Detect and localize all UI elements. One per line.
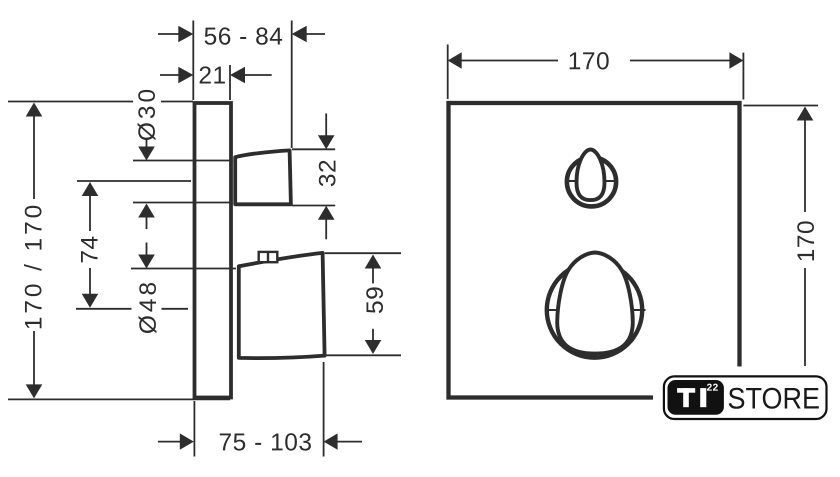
svg-text:74: 74	[76, 235, 103, 263]
dim line 32 upper	[325, 113, 327, 136]
logo TI letter I	[700, 388, 706, 407]
extension line front-plate left	[447, 45, 449, 100]
arrowhead 21 right	[230, 67, 245, 83]
arrowhead 32 up	[318, 206, 335, 220]
extension line 59 top	[325, 252, 401, 254]
extension line dia30 top	[133, 160, 233, 162]
dim line 170 top left	[461, 60, 558, 62]
dim line 170 top right	[630, 60, 730, 62]
arrowhead dia48 up	[138, 204, 155, 218]
dim line 59 lower	[372, 329, 374, 341]
extension line plate top-left	[8, 101, 133, 103]
extension line wall face top	[192, 21, 194, 101]
svg-text:Ø48: Ø48	[135, 279, 162, 334]
svg-text:59: 59	[362, 286, 389, 314]
arrowhead 74 up	[82, 182, 99, 196]
logo background mask	[653, 367, 836, 430]
arrowhead 75-103 right	[324, 433, 338, 449]
extension line plate front top	[229, 65, 231, 100]
dim line 59 upper	[372, 268, 374, 283]
escutcheon front view	[449, 103, 740, 398]
svg-text:170 / 170: 170 / 170	[20, 202, 47, 330]
svg-text:STORE: STORE	[728, 382, 820, 416]
extension line 59 bottom	[323, 354, 401, 356]
arrowhead 56-84 left	[178, 26, 193, 42]
logo outer rounded frame	[664, 376, 827, 419]
volume handle tick left	[546, 309, 558, 311]
arrowhead 170 right up	[797, 107, 814, 121]
arrowhead 170 top left	[448, 52, 462, 68]
svg-text:170: 170	[793, 220, 820, 262]
dim line 75-103 left	[158, 441, 180, 443]
dim line 21 left	[160, 74, 180, 76]
dim line 170 right upper	[804, 120, 806, 212]
extension line 32 top	[292, 148, 335, 150]
extension line front-plate right	[742, 53, 744, 100]
thermostat handle tick left	[566, 180, 577, 182]
dim line 74 lower	[89, 268, 91, 295]
arrowhead 170/170 down	[26, 384, 43, 398]
volume knob side view (bottom)	[239, 253, 325, 358]
centerline knob2	[76, 308, 132, 310]
extension line knob1 face	[291, 21, 293, 149]
arrowhead 170 top right	[729, 52, 743, 68]
dim line 170/170 lower	[33, 331, 35, 386]
arrowhead 75-103 left	[180, 433, 194, 449]
dim line 170 right lower	[804, 268, 806, 366]
svg-text:56 - 84: 56 - 84	[204, 23, 284, 50]
logo TI letter T	[677, 388, 706, 407]
dim line 75-103 right	[337, 441, 362, 443]
svg-text:32: 32	[314, 159, 341, 187]
thermostat handle tick right	[605, 180, 617, 182]
dim line 21 right	[243, 74, 272, 76]
dim line dia48 upper tail	[146, 216, 148, 229]
arrowhead dia48 down	[138, 255, 155, 269]
svg-text:22: 22	[707, 383, 719, 394]
safety stop tab on volume knob	[259, 252, 278, 262]
extension line front-plate top-right	[743, 105, 818, 107]
arrowhead 170/170 up	[26, 103, 43, 117]
extension line plate bottom-left	[8, 398, 230, 400]
arrowhead 74 down	[82, 294, 99, 308]
dim line dia48 lower tail	[146, 243, 148, 256]
extension line 32 bottom	[292, 205, 335, 207]
volume handle front view ring	[547, 262, 642, 357]
dim line 170/170 upper	[33, 115, 35, 199]
wall plate side view	[195, 103, 232, 398]
volume handle front view grip	[557, 253, 633, 354]
arrowhead dia30 down	[138, 147, 155, 161]
arrowhead 59 down	[365, 340, 382, 354]
thermostat knob side view (top)	[235, 150, 291, 204]
svg-text:21: 21	[198, 62, 226, 89]
arrowhead 21 left	[178, 67, 193, 83]
arrowhead 32 down	[318, 135, 335, 149]
dim line dia30	[146, 139, 148, 147]
dim line 74 upper	[89, 195, 91, 231]
centerline knob2 (after dia48 text)	[162, 308, 189, 310]
centerline knob1	[77, 180, 191, 182]
extension line 75-103 right	[323, 362, 325, 457]
extension line dia30 bottom	[133, 202, 233, 204]
dim line 56-84 left	[158, 33, 180, 35]
dim line 56-84 right	[305, 33, 325, 35]
volume handle tick right	[632, 309, 646, 311]
extension line 75-103 left	[193, 401, 195, 457]
svg-text:Ø30: Ø30	[134, 86, 161, 141]
svg-text:170: 170	[568, 48, 610, 75]
svg-text:75 - 103: 75 - 103	[219, 429, 313, 456]
logo black badge	[668, 380, 724, 415]
dim line 32 lower	[325, 219, 327, 239]
thermostat handle front view grip	[577, 150, 605, 201]
extension line dia48 bottom	[131, 268, 236, 270]
thermostat handle front view ring	[567, 157, 616, 206]
arrowhead 59 up	[365, 255, 382, 269]
extension line plate top-left (after dia30 text)	[161, 101, 193, 103]
arrowhead 56-84 right	[292, 26, 307, 42]
